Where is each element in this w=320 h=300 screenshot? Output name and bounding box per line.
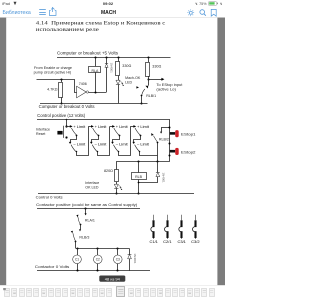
contactor coil C2 xyxy=(94,248,103,271)
toolbar search icon xyxy=(200,10,206,16)
0V rail wire xyxy=(40,103,148,105)
svg-text:C2/1: C2/1 xyxy=(163,240,171,244)
riser wire column 3 xyxy=(109,126,111,155)
svg-text:C3/2: C3/2 xyxy=(191,240,199,244)
resistor R2 330 xyxy=(116,58,132,81)
svg-text:Contactor 0 Volts: Contactor 0 Volts xyxy=(35,265,70,269)
node C2 on bus xyxy=(96,247,98,249)
svg-text:4.14 Примерная схема Estop и: 4.14 Примерная схема Estop и Концевиков … xyxy=(36,21,166,27)
wire 12V link stub to RLB/2 xyxy=(161,128,163,132)
svg-text:RLB: RLB xyxy=(135,175,142,179)
node diode D3 on bus xyxy=(156,160,158,162)
EStop button EStop1 xyxy=(170,130,197,137)
svg-text:C3: C3 xyxy=(116,258,120,262)
wire to +Limit3 contact xyxy=(110,126,113,128)
pushbutton Interface Reset xyxy=(57,119,67,138)
contactor coil C3 xyxy=(114,248,123,271)
12V rail label xyxy=(37,113,86,118)
node D1 on +5V rail xyxy=(105,56,107,58)
svg-text:OK LED: OK LED xyxy=(85,186,99,190)
resistor R3 330 xyxy=(146,58,162,80)
svg-text:– Limit: – Limit xyxy=(95,143,108,147)
node RLB to control 0V xyxy=(137,192,139,194)
svg-text:Reset: Reset xyxy=(36,132,45,136)
node R2 on +5V rail xyxy=(117,56,119,58)
svg-text:Computer or breakout 0 Volts: Computer or breakout 0 Volts xyxy=(39,104,95,109)
svg-text:RLA/1: RLA/1 xyxy=(85,219,95,223)
svg-text:Interface: Interface xyxy=(85,181,99,185)
diode D1 1N4001 xyxy=(105,58,114,93)
svg-text:C3/1: C3/1 xyxy=(178,240,186,244)
wire to +Limit2 contact xyxy=(88,126,91,128)
svg-text:pump circuit (active Hi): pump circuit (active Hi) xyxy=(34,71,72,75)
status bar text iPad xyxy=(2,1,16,6)
toolbar bookmark icon xyxy=(211,9,216,16)
toolbar bottom hairline xyxy=(0,17,225,19)
svg-text:Control 0 Volts: Control 0 Volts xyxy=(36,194,63,199)
svg-text:+ Limit: + Limit xyxy=(116,125,129,129)
svg-text:330Ω: 330Ω xyxy=(152,64,161,68)
relay contact RLB/3 xyxy=(71,229,90,242)
wire -Limit4 output xyxy=(139,151,158,156)
svg-text:Computer or breakout +5 Volts: Computer or breakout +5 Volts xyxy=(57,51,118,56)
svg-text:C1/1: C1/1 xyxy=(150,240,158,244)
switch -Limit1 xyxy=(69,142,86,152)
0V rail label xyxy=(39,104,95,109)
node EStop riser top xyxy=(169,127,171,129)
svg-text:48 из 94: 48 из 94 xyxy=(105,276,121,281)
switch -Limit4 xyxy=(132,142,149,152)
control 0V rail wire xyxy=(38,193,194,195)
toolbar brightness icon xyxy=(188,10,195,17)
page thumbnail strip xyxy=(3,287,214,297)
resistor R1 4.7K xyxy=(47,79,62,103)
svg-text:C2: C2 xyxy=(96,258,100,262)
svg-text:09:02: 09:02 xyxy=(103,1,114,6)
svg-text:LED: LED xyxy=(125,81,132,85)
EStop riser wire xyxy=(169,119,171,161)
grey app background band xyxy=(0,18,225,286)
svg-text:Interface: Interface xyxy=(36,127,50,131)
label Interface OK LED xyxy=(85,181,99,190)
node enable/R1 junction xyxy=(60,78,62,80)
node C2 bottom xyxy=(96,269,98,271)
page number badge 48 of 94 xyxy=(99,276,125,282)
contactor positive rail wire xyxy=(37,208,140,210)
wire +Limit1 to -Limit1 xyxy=(71,136,77,143)
wire enable input xyxy=(37,80,77,93)
svg-text:Contactor positive (could be s: Contactor positive (could be same as Con… xyxy=(36,203,138,207)
svg-text:330Ω: 330Ω xyxy=(122,64,131,68)
relay contact RLA/1 xyxy=(76,208,95,225)
contactor contact C3/1 xyxy=(178,215,186,244)
svg-text:(active Lo): (active Lo) xyxy=(156,88,176,92)
svg-text:iPad: iPad xyxy=(2,1,10,6)
white document page xyxy=(6,18,217,286)
node RLA bottom junction xyxy=(94,91,96,93)
wire +Limit3 to -Limit3 xyxy=(113,136,120,143)
svg-text:EStop2: EStop2 xyxy=(181,149,196,154)
node reset on 12V rail xyxy=(66,119,68,121)
relay coil RLA xyxy=(89,58,101,93)
node below EStop2 xyxy=(169,155,171,157)
node R3 on +5V rail xyxy=(147,56,149,58)
toolbar back button Библиотека xyxy=(3,10,31,16)
wire -Limit2 output xyxy=(97,151,110,156)
toolbar contents icon xyxy=(39,10,46,15)
svg-text:+ Limit: + Limit xyxy=(95,125,108,129)
node RLA/1 on contactor rail xyxy=(84,207,86,209)
EStop button EStop2 xyxy=(170,148,197,155)
node R1 to 0V rail xyxy=(60,102,62,104)
contactor 0V rail label xyxy=(35,265,70,269)
node RLB coil on bus xyxy=(137,160,139,162)
contactor contact C1/1 xyxy=(150,215,158,244)
node LED to control 0V xyxy=(115,192,117,194)
node EStop output junction xyxy=(147,78,149,80)
svg-text:– Limit: – Limit xyxy=(137,143,150,147)
switch -Limit3 xyxy=(111,142,128,152)
node RLB bottom xyxy=(138,182,140,184)
svg-text:1N4001: 1N4001 xyxy=(133,253,137,264)
switch +Limit4 xyxy=(133,125,149,137)
node between EStops xyxy=(169,143,171,145)
svg-text:RLB/1: RLB/1 xyxy=(146,94,156,98)
wire +Limit4 to -Limit4 xyxy=(134,136,141,143)
LED D4 Interface OK xyxy=(114,184,122,193)
svg-text:↯: ↯ xyxy=(220,2,223,6)
svg-text:RLB/2: RLB/2 xyxy=(159,138,169,142)
resistor R4 820 xyxy=(104,161,119,184)
control 0V rail label xyxy=(36,194,63,199)
svg-text:↯ 75%: ↯ 75% xyxy=(195,2,207,6)
wire RLA/1 to RLB/3 xyxy=(80,224,82,229)
status bar clock xyxy=(103,1,114,6)
diode D3 1N4001 xyxy=(139,161,166,183)
svg-text:MACH: MACH xyxy=(101,10,116,16)
svg-text:7406: 7406 xyxy=(79,82,87,86)
switch +Limit3 xyxy=(112,125,128,137)
label Interface Reset xyxy=(36,127,50,136)
wire RLB/3 to coil bus xyxy=(75,241,77,248)
svg-text:4.7KΩ: 4.7KΩ xyxy=(47,88,58,92)
node RLB/1 to 0V rail xyxy=(140,102,142,104)
toolbar document title MACH xyxy=(101,10,116,16)
svg-text:+ Limit: + Limit xyxy=(73,125,86,129)
node C3 on bus xyxy=(116,247,118,249)
svg-text:Библиотека: Библиотека xyxy=(3,10,31,16)
node RLA on +5V rail xyxy=(94,56,96,58)
diode D5 1N4001 xyxy=(128,249,137,271)
relay contact RLB/2 xyxy=(151,132,169,144)
label Mach-OK LED xyxy=(125,76,141,85)
riser wire column 2 xyxy=(88,126,90,155)
wire -Limit3 output xyxy=(118,151,131,156)
svg-text:Mach-OK: Mach-OK xyxy=(125,76,141,80)
svg-text:To EStop input: To EStop input xyxy=(156,83,182,87)
output bus wire xyxy=(116,161,170,163)
wire top link to EStop riser xyxy=(161,127,170,129)
relay contact RLB/1 xyxy=(136,79,156,103)
svg-text:Control positive (12 Volts): Control positive (12 Volts) xyxy=(37,113,86,118)
svg-text:EStop1: EStop1 xyxy=(181,132,196,137)
wire U1 output xyxy=(89,92,107,94)
toolbar share icon xyxy=(49,8,56,16)
+5V rail label xyxy=(57,51,118,56)
switch -Limit2 xyxy=(90,142,107,152)
svg-text:1N4001: 1N4001 xyxy=(109,63,113,74)
contactor 0V rail wire xyxy=(37,270,150,272)
label To EStop input xyxy=(156,83,182,92)
svg-text:C1: C1 xyxy=(75,258,79,262)
heading 4.14 xyxy=(36,21,166,33)
contactor contact C2/1 xyxy=(163,215,171,244)
wire to +Limit1 contact xyxy=(66,126,70,128)
contactor positive rail label xyxy=(36,203,138,207)
wire -Limit1 output xyxy=(76,151,89,156)
svg-text:использованием реле: использованием реле xyxy=(36,27,100,33)
status bar battery xyxy=(195,2,223,7)
wire to +Limit4 contact xyxy=(130,126,133,128)
contactor coil C1 xyxy=(73,248,82,271)
svg-text:RLB/3: RLB/3 xyxy=(79,236,89,240)
inverter U1 7406 xyxy=(77,82,89,98)
svg-text:1N4001: 1N4001 xyxy=(161,173,165,184)
svg-text:– Limit: – Limit xyxy=(73,143,86,147)
switch +Limit2 xyxy=(91,125,107,137)
riser wire column 4 xyxy=(130,126,132,155)
node C1 bottom xyxy=(76,269,78,271)
contactor coil bus wire xyxy=(76,248,130,250)
node C3 bottom xyxy=(116,269,118,271)
label From Enable xyxy=(34,66,72,74)
contactor contact C3/2 xyxy=(191,215,199,244)
switch +Limit1 xyxy=(70,125,86,137)
LED D2 Mach-OK xyxy=(116,80,124,103)
node C1 on bus xyxy=(76,247,78,249)
svg-text:820Ω: 820Ω xyxy=(104,169,113,173)
wire +Limit2 to -Limit2 xyxy=(92,136,99,143)
+5V rail wire xyxy=(57,57,171,59)
wire to EStop input with arrow xyxy=(148,78,164,81)
relay coil RLB xyxy=(132,161,147,193)
12V rail wire xyxy=(37,119,170,121)
svg-text:From Enable or charge: From Enable or charge xyxy=(34,66,72,70)
svg-text:– Limit: – Limit xyxy=(116,143,129,147)
svg-text:+ Limit: + Limit xyxy=(137,125,150,129)
wire RLB/2 to output bus xyxy=(157,143,159,162)
